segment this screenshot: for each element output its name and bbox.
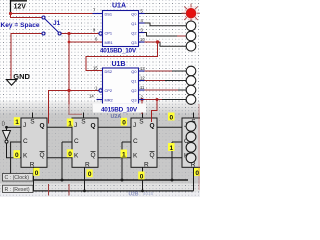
U1A pin 10 stub Q3 — [139, 41, 145, 43]
probe X8 (Q3B) — [186, 95, 196, 105]
switch J1 common terminal — [58, 32, 61, 35]
svg-text:S: S — [81, 118, 86, 125]
svg-text:U2A: U2A — [111, 114, 122, 120]
lamp L1 over FF4 — [186, 121, 196, 131]
svg-text:C : (Clock): C : (Clock) — [5, 175, 30, 181]
U1A pin 5 stub Q0 — [139, 13, 145, 15]
reset label box — [3, 185, 34, 192]
FF1 R stub to reset bus — [33, 167, 35, 191]
flip-flop figure wires — [7, 127, 194, 191]
lamp L4 over FF4 — [186, 153, 196, 163]
U1A CP1 inversion bubble pin 9 — [99, 32, 102, 35]
wire bottom stub B — [68, 184, 70, 196]
svg-text:S: S — [30, 118, 35, 125]
svg-text:J: J — [133, 122, 136, 129]
wire Q3A pin10 to probe X4 — [160, 42, 186, 46]
wire Q0B red segment — [145, 70, 173, 72]
FF3 S stub — [142, 113, 144, 119]
U1A/U1B pin numbers — [89, 8, 145, 100]
wire switch common to CP1 — [61, 33, 99, 35]
svg-text:14: 14 — [89, 94, 94, 99]
wire right edge faint — [198, 104, 200, 190]
probe X1 LED (lit red) — [181, 4, 200, 23]
probe X4 (Q3A) — [186, 41, 196, 51]
svg-text:GND: GND — [13, 72, 30, 81]
svg-text:Q1: Q1 — [131, 21, 136, 26]
clock label box — [3, 174, 34, 182]
wire C3 input — [122, 141, 131, 143]
svg-text:DS1: DS1 — [105, 11, 113, 16]
junction reset bus at R3 tap — [141, 190, 144, 193]
svg-text:Q0: Q0 — [131, 69, 137, 74]
inverter (D to K1) triangle — [3, 131, 11, 141]
wire Q0A pin5 to LED X1 — [145, 13, 187, 15]
switch J1 blade — [45, 19, 59, 33]
U1B pin 14 stub MR2 — [97, 99, 103, 101]
svg-text:Q1: Q1 — [131, 78, 136, 83]
wire Q1B red segment — [145, 80, 166, 82]
wire Q2 to J3 — [98, 126, 131, 128]
svg-text:Q: Q — [150, 123, 155, 130]
svg-text:C: C — [23, 138, 28, 145]
value label K3 input =1 — [121, 150, 128, 158]
wire Q2B red segment — [145, 89, 179, 91]
svg-text:U2B: U2B — [129, 192, 139, 197]
wire 12V to DS1 — [11, 13, 94, 15]
value label J2 input =1 — [67, 119, 74, 127]
wire Q3B hook drop at x=157 — [152, 100, 158, 123]
FF1 S stub — [32, 113, 34, 119]
junction battery node — [9, 12, 12, 15]
svg-text:13: 13 — [140, 66, 145, 71]
svg-text:K: K — [133, 152, 138, 159]
svg-text:12V: 12V — [14, 4, 27, 11]
value label K4 input =1 — [168, 143, 175, 151]
wire Q1bar to K2 — [47, 157, 72, 159]
svg-text:Q: Q — [91, 123, 96, 130]
probe X7 (Q2B) — [186, 85, 196, 95]
switch J1 throw terminal 1 — [42, 16, 45, 19]
wire C1 input — [11, 142, 21, 174]
FF2 S stub — [83, 113, 85, 119]
lamp L3 over FF4 — [186, 142, 196, 152]
svg-text:0: 0 — [68, 151, 72, 158]
svg-text:0: 0 — [170, 115, 174, 122]
U1A pin 7 stub DS1 — [93, 13, 103, 15]
clock bus — [33, 179, 188, 181]
svg-text:Q: Q — [150, 152, 155, 159]
junction reset bus at R2 tap — [83, 190, 86, 193]
U1B pin 12 stub Q1 — [139, 80, 145, 82]
lamp L2 over FF4 — [186, 132, 196, 142]
wire CP2 — [49, 91, 99, 124]
FF3 R stub to reset bus — [142, 167, 144, 191]
svg-text:1: 1 — [15, 119, 19, 126]
U1A pin 3 stub Q2 — [139, 32, 145, 34]
svg-text:Q3: Q3 — [131, 40, 136, 45]
svg-text:J: J — [23, 122, 26, 129]
wire clock vertical — [68, 34, 70, 105]
wire bottom stub A — [48, 184, 50, 196]
probe X5 (Q0B) — [186, 66, 196, 76]
inverter bubble — [5, 140, 8, 143]
svg-text:K: K — [23, 152, 28, 159]
wire Q0B pin13 to probe X5 (dark end) — [172, 70, 186, 72]
wire Q2bar to K3 — [98, 157, 131, 159]
svg-text:J1: J1 — [53, 20, 61, 27]
svg-text:1: 1 — [122, 152, 126, 159]
value label K1 input =0 — [14, 150, 21, 158]
wire Q3bar to K4 — [157, 157, 182, 159]
wire Q1 to J2 — [47, 126, 72, 128]
svg-text:U1B: U1B — [112, 61, 126, 68]
junction Q3B tap 2 — [156, 98, 159, 101]
svg-text:1: 1 — [68, 121, 72, 128]
value label R1 =0 — [33, 168, 39, 176]
junction clock bus at C3 tap — [121, 179, 124, 182]
svg-text:11: 11 — [140, 85, 145, 90]
svg-text:Key = Space: Key = Space — [1, 22, 40, 29]
U1B pin 2 stub Q3 — [139, 99, 145, 101]
flip-flop FF1 box — [21, 118, 47, 167]
svg-text:0: 0 — [122, 120, 126, 127]
wire Q3B pin2 to probe X8 (dark end) — [162, 99, 186, 101]
svg-text:4015BD_10V: 4015BD_10V — [101, 106, 138, 113]
wire Q3B drop at x=142 — [141, 100, 143, 115]
shift register U1B (4015BD) body — [103, 68, 139, 104]
svg-text:J: J — [74, 122, 77, 129]
svg-text:Q: Q — [91, 152, 96, 159]
svg-text:Q: Q — [40, 123, 45, 130]
D input wire — [7, 126, 22, 128]
junction clock bus at C4 tap — [171, 179, 174, 182]
svg-text:R: R — [85, 161, 90, 168]
svg-text:R : (Reset): R : (Reset) — [5, 187, 30, 193]
wire Q2A red segment — [177, 35, 186, 37]
switch J1 throw terminal 2 — [42, 32, 45, 35]
svg-text:K: K — [74, 152, 79, 159]
wire C3 tap to clock bus — [121, 142, 123, 180]
probe X2 (Q1A) — [186, 21, 196, 31]
svg-text:CP1: CP1 — [105, 31, 113, 36]
svg-text:U1A: U1A — [112, 2, 126, 9]
FF3 Qbar overline — [150, 151, 155, 153]
wire C4 tap to clock bus — [171, 142, 173, 180]
svg-text:12: 12 — [140, 75, 145, 80]
svg-text:MR1: MR1 — [105, 40, 113, 45]
svg-text:MR2: MR2 — [105, 97, 113, 102]
wire clock under grey — [69, 104, 82, 114]
svg-text:C: C — [74, 138, 79, 145]
wire Q1A pin4 to probe X2 — [145, 23, 187, 26]
svg-text:0: 0 — [35, 170, 39, 177]
value label 4015BD_10V for U1B (on white box) — [93, 104, 146, 113]
svg-text:Q2: Q2 — [131, 88, 136, 93]
wire Q3 to J4 — [157, 126, 182, 128]
FF1 Qbar overline — [40, 151, 45, 153]
U1B CP2 inversion bubble pin 1 — [99, 89, 102, 92]
value label J4 input =0 — [168, 113, 175, 121]
U1A pin 4 stub Q1 — [139, 22, 145, 24]
wire C2 input — [62, 141, 72, 143]
junction clock bus at C2 tap — [61, 179, 64, 182]
svg-text:4015BD_10V: 4015BD_10V — [100, 47, 137, 54]
junction clock node at CP1 wire — [67, 32, 70, 35]
value label R2 =0 — [86, 169, 92, 177]
probe X6 (Q1B) — [186, 76, 196, 86]
svg-text:D: D — [2, 122, 6, 128]
svg-text:Q0: Q0 — [131, 11, 137, 16]
battery V1 (12V source, cut at top) — [11, 0, 28, 14]
wire MR1 — [69, 41, 103, 43]
wire Q1B pin12 to probe X6 (dark end) — [165, 80, 186, 82]
wire Q3A to DS2 cascade — [86, 42, 158, 71]
wire GND riser and throw2 — [11, 34, 42, 80]
svg-text:R: R — [144, 161, 149, 168]
FF2 Qbar overline — [91, 151, 96, 153]
value label K2 input =0 — [67, 149, 73, 157]
inverter feed — [6, 127, 8, 130]
svg-text:1: 1 — [170, 145, 174, 152]
svg-text:15: 15 — [93, 65, 98, 70]
reset bus — [33, 190, 194, 192]
junction Q3A cascade tap — [156, 40, 159, 43]
shift register U1A (4015BD) body — [103, 11, 139, 47]
probe X3 (Q2A) — [186, 31, 196, 41]
junction Q3B tap 1 — [141, 98, 144, 101]
svg-text:0: 0 — [15, 152, 19, 159]
svg-text:10: 10 — [140, 37, 145, 42]
junction CP2 wire — [67, 89, 70, 92]
ground symbol — [6, 80, 16, 86]
svg-text:4015: 4015 — [143, 191, 154, 196]
svg-text:0: 0 — [88, 171, 92, 178]
U1A/U1B pin name labels — [105, 11, 113, 102]
flip-flop FF3 box — [131, 118, 157, 167]
wire Q2A pin3 to probe X3 — [145, 33, 178, 37]
FF4 S stub — [193, 113, 195, 119]
value label R4 =0 — [194, 168, 200, 176]
wire Q2B pin11 to probe X7 (dark end) — [178, 89, 186, 91]
junction D node — [5, 126, 8, 129]
svg-text:R: R — [30, 161, 35, 168]
wire C2 tap to clock bus — [61, 142, 63, 180]
flip-flop FF2 box — [72, 118, 98, 167]
svg-text:CP2: CP2 — [105, 88, 113, 93]
wire Q3B red segment — [145, 99, 163, 101]
value label J3 input =0 — [121, 118, 127, 126]
wire 12V jog to switch throw1 — [11, 14, 43, 18]
svg-text:DS2: DS2 — [105, 69, 113, 74]
flip-flop FF4 box (cut at right edge) — [182, 118, 208, 167]
grey figure background (pasted picture) — [0, 101, 200, 115]
svg-text:0: 0 — [140, 173, 144, 180]
FF4 R stub to reset bus — [193, 167, 195, 191]
wire pin10 segment — [141, 41, 161, 43]
svg-text:Q2: Q2 — [131, 30, 136, 35]
U1B pin 11 stub Q2 — [139, 89, 145, 91]
value label R3 =0 — [138, 172, 144, 180]
red wires — [11, 14, 161, 124]
svg-text:S: S — [139, 118, 144, 125]
value label J1 input =1 — [14, 117, 20, 125]
U1B pin 13 stub Q0 — [139, 70, 145, 72]
FF2 R stub to reset bus — [84, 167, 86, 191]
svg-text:Q3: Q3 — [131, 97, 136, 102]
svg-text:Q: Q — [40, 152, 45, 159]
junction MR1 wire — [68, 41, 71, 44]
wire C4 input — [172, 141, 182, 143]
svg-text:C: C — [133, 138, 138, 145]
